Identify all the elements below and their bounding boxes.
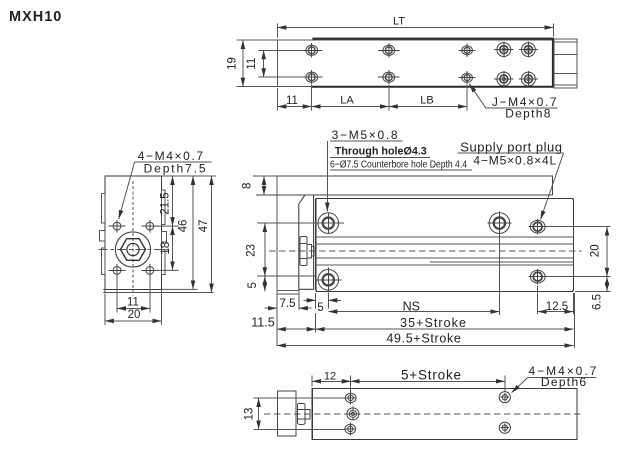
svg-text:46: 46 — [178, 220, 190, 233]
svg-text:49.5+Stroke: 49.5+Stroke — [386, 332, 461, 346]
SIDE VIEW rod upper line 2 — [316, 243, 574, 245]
bottom-view hole right bottom — [499, 422, 510, 433]
label J-M4x0.7 leader — [469, 84, 485, 108]
svg-text:8: 8 — [242, 183, 254, 189]
side-view counterbore hole bottom-left — [316, 268, 342, 293]
svg-text:12: 12 — [324, 370, 336, 382]
supply port leader — [541, 153, 564, 219]
TOP VIEW slide table bold edges — [312, 39, 553, 87]
LEFT VIEW right port boss — [162, 232, 167, 243]
dimension NS — [328, 234, 499, 315]
dimension LA — [312, 85, 389, 111]
dimension 35+Stroke — [316, 328, 574, 330]
svg-text:Depth8: Depth8 — [505, 107, 551, 121]
dimension 49.5+Stroke — [277, 293, 575, 348]
label counterbore underline — [330, 169, 472, 171]
BOTTOM VIEW end plate — [277, 391, 296, 436]
SIDE VIEW rod lower line 2 — [430, 261, 573, 263]
svg-text:21.5: 21.5 — [160, 192, 172, 214]
dimension 47 — [211, 176, 213, 293]
hole top-view C1 (row1 col3) — [459, 44, 476, 57]
svg-text:LA: LA — [340, 95, 354, 107]
svg-text:12.5: 12.5 — [546, 301, 568, 313]
bottom-view hole left bottom — [345, 422, 356, 435]
dimension 21.5 — [172, 176, 174, 226]
dimension 13 — [258, 398, 260, 429]
svg-text:11: 11 — [127, 296, 139, 308]
label 4-M4x0.7 underline (bottom view) — [528, 376, 596, 378]
svg-text:20: 20 — [128, 309, 141, 321]
svg-text:LT: LT — [393, 16, 405, 28]
dimension 6.5 — [575, 277, 611, 292]
SIDE VIEW rod lower line 1 — [316, 257, 574, 259]
svg-text:6−Ø7.5 Counterbore hole Depth: 6−Ø7.5 Counterbore hole Depth 4.4 — [330, 159, 467, 171]
SIDE VIEW centerline dashed — [269, 250, 582, 252]
LEFT VIEW right rail tab upper — [162, 190, 165, 225]
svg-text:11: 11 — [246, 58, 258, 70]
TOP VIEW end cap — [554, 39, 577, 88]
dimension 11 vertical — [259, 50, 304, 77]
side-view supply port hole bottom — [529, 269, 547, 284]
svg-text:11: 11 — [286, 95, 298, 107]
svg-text:20: 20 — [590, 244, 602, 257]
label 4-M4x0.7 underline (left view) — [134, 161, 211, 163]
svg-text:Depth6: Depth6 — [541, 375, 587, 389]
leader 4-M4x0.7 (bottom view) — [512, 377, 528, 392]
LEFT VIEW left port boss — [99, 231, 104, 242]
BOTTOM VIEW body outline — [312, 389, 577, 440]
LEFT VIEW piston rod circle — [127, 243, 139, 255]
dimension 19 — [237, 40, 278, 87]
svg-text:23: 23 — [246, 244, 258, 257]
dimension 5+Stroke — [351, 376, 505, 392]
LEFT VIEW left rail tab upper — [101, 194, 104, 224]
svg-text:MXH10: MXH10 — [9, 9, 62, 25]
svg-text:35+Stroke: 35+Stroke — [400, 316, 466, 330]
BOTTOM VIEW centerline dashed — [264, 413, 582, 415]
dimension LT — [277, 24, 553, 38]
LEFT VIEW bottom plate line — [103, 289, 214, 292]
svg-text:Through holeØ4.3: Through holeØ4.3 — [335, 146, 427, 158]
svg-text:13: 13 — [243, 408, 255, 421]
svg-text:3−M5×0.8: 3−M5×0.8 — [332, 128, 398, 142]
LEFT VIEW body outline — [105, 176, 162, 289]
svg-text:19: 19 — [227, 57, 239, 70]
hole top-view D3 threaded (row2 col4) — [494, 71, 513, 87]
svg-text:NS: NS — [403, 299, 420, 313]
svg-text:18: 18 — [160, 242, 172, 255]
SIDE VIEW rod nut — [300, 237, 314, 266]
LEFT VIEW vertical centerline dashed — [132, 181, 134, 296]
label 3-M5x0.8 leader — [326, 141, 328, 211]
hole top-view D2 threaded (row1 col5) — [519, 42, 538, 58]
dimension 8 — [255, 176, 277, 195]
side-view counterbore hole top-right — [488, 212, 512, 235]
SIDE VIEW rod lower line 3 — [316, 264, 574, 266]
svg-text:47: 47 — [198, 220, 210, 233]
dimension 20 (left view) — [105, 294, 162, 326]
hole top-view A2 (row2 col1) — [301, 70, 322, 84]
TOP VIEW body outline — [277, 40, 553, 87]
svg-text:Depth7.5: Depth7.5 — [144, 162, 206, 176]
hole top-view D1 threaded (row1 col4) — [494, 42, 513, 58]
side-view supply port hole top — [529, 219, 547, 234]
BOTTOM VIEW rod nut — [297, 403, 310, 424]
dimension 23 — [257, 223, 344, 276]
svg-text:4−M5×0.8×4L: 4−M5×0.8×4L — [473, 153, 556, 167]
dimension 5 (left side) — [264, 276, 266, 291]
SIDE VIEW rod upper line 1 — [316, 236, 574, 238]
dimension 11.5 — [277, 313, 316, 333]
SIDE VIEW body outline — [316, 198, 574, 291]
hole top-view A1 (row1 col1) — [301, 43, 322, 57]
label 3-M5x0.8 underline — [330, 140, 403, 142]
left-view hole top-right — [141, 220, 158, 233]
dimension 20 (right side) — [547, 227, 611, 277]
dimension LB — [389, 85, 467, 111]
SIDE VIEW slide table top line — [253, 176, 553, 195]
LEFT VIEW horizontal centerline — [99, 249, 169, 251]
LEFT VIEW right rail tab lower — [162, 250, 165, 275]
hole top-view B2 (row2 col2) — [378, 70, 399, 84]
svg-text:11.5: 11.5 — [251, 316, 274, 330]
dimension 5 (bottom) — [304, 293, 342, 309]
side-view counterbore hole top-left — [318, 213, 339, 234]
svg-text:5: 5 — [247, 282, 259, 288]
LEFT VIEW center boss circle — [115, 232, 150, 267]
dimension 12.5 — [538, 286, 574, 314]
hole top-view B1 (row1 col2) — [378, 43, 399, 57]
left view hole row extensions right — [154, 226, 179, 270]
dimension 12 — [312, 376, 351, 392]
label Through hole underline — [330, 156, 430, 158]
hole top-view D4 threaded (row2 col5) — [519, 71, 538, 87]
SIDE VIEW bottom plate stub — [277, 291, 299, 295]
left view top edge extension — [162, 175, 217, 177]
label J-M4x0.7 underline — [486, 107, 558, 109]
BOTTOM VIEW plate edge line upper — [254, 397, 346, 399]
BOTTOM VIEW plate edge line lower — [254, 428, 346, 430]
label 4-M4x0.7 leader (left view) — [119, 162, 135, 219]
SIDE VIEW left end plate — [299, 195, 314, 289]
left-view hole bottom-left — [109, 264, 126, 277]
SIDE VIEW table/body interface line — [256, 194, 553, 196]
dimension 11 (left view) — [117, 275, 150, 313]
dimension 18 — [172, 226, 174, 270]
label Supply port plug underline — [457, 152, 563, 154]
LEFT VIEW left rail tab lower — [101, 248, 104, 275]
svg-text:Supply port plug: Supply port plug — [460, 139, 562, 154]
dimension 7.5 — [265, 295, 312, 311]
bottom-view center hole — [345, 407, 360, 422]
svg-text:6.5: 6.5 — [592, 294, 604, 310]
svg-text:5+Stroke: 5+Stroke — [401, 367, 461, 382]
extension line left long vertical — [276, 176, 278, 346]
svg-text:7.5: 7.5 — [280, 298, 296, 310]
dimension 46 — [192, 176, 194, 289]
LEFT VIEW hex nut — [121, 239, 146, 261]
left-view hole top-left — [109, 220, 126, 233]
svg-text:LB: LB — [420, 95, 433, 107]
bottom-view hole left top — [345, 391, 356, 404]
svg-text:5: 5 — [317, 302, 323, 314]
dimension 11 horizontal — [277, 85, 311, 111]
left-view hole bottom-right — [141, 264, 158, 277]
hole top-view C2 (row2 col3) — [459, 71, 476, 84]
bottom-view hole right top — [499, 392, 510, 403]
